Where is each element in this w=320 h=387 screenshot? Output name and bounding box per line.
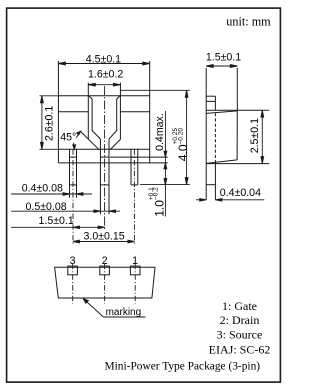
side tab top [206, 95, 215, 97]
bottom view body outline [55, 267, 155, 298]
svg-text:45°: 45° [60, 132, 76, 144]
internal tab edge right segment [120, 111, 149, 113]
svg-text:2: 2 [102, 255, 108, 267]
side hidden tab line [214, 113, 216, 163]
dim 1.6 line [88, 84, 120, 86]
svg-text:0.4±0.08: 0.4±0.08 [22, 183, 63, 195]
tab left side + 1.6 extension [87, 83, 89, 140]
lead 2 (center) front [99, 139, 101, 214]
side lead tip [206, 184, 215, 186]
svg-text:−0.2: −0.2 [152, 187, 159, 200]
centerline center/tab [104, 86, 106, 229]
centerline lead 1 [133, 149, 135, 243]
svg-text:1.6±0.2: 1.6±0.2 [88, 68, 123, 80]
side body top face [206, 109, 269, 111]
dim 0.5 (lead 2 width) line [11, 210, 120, 212]
marking leader diagonal [85, 301, 103, 318]
svg-text:1.5±0.1: 1.5±0.1 [39, 215, 74, 227]
centerline lead 3 [72, 149, 74, 243]
svg-text:1: 1 [132, 255, 138, 267]
dim 0.4max / 1.0 shared line [164, 111, 166, 217]
side body left edge full (ext+tab+body+lead+ext) [205, 68, 207, 200]
45 deg leader arrow down to bottom [73, 143, 76, 148]
side seating extension line [206, 163, 269, 165]
svg-text:0.4±0.04: 0.4±0.04 [220, 187, 261, 199]
side 1.5 right extension [236, 68, 238, 110]
dim 2.6 line [41, 96, 43, 150]
svg-text:4.5±0.1: 4.5±0.1 [86, 53, 121, 65]
front view body right edge + 4.5 extension [149, 61, 151, 163]
inner metal outline right [109, 96, 120, 139]
svg-text:1.0: 1.0 [152, 200, 166, 217]
svg-text:marking: marking [106, 307, 142, 318]
dim 4.5 line [58, 63, 149, 65]
front view body bottom edge [58, 148, 149, 150]
side tab right edge [214, 96, 216, 110]
svg-text:2.6±0.1: 2.6±0.1 [44, 106, 56, 141]
side dim 2.5 line [261, 110, 263, 163]
internal tab edge left segment [58, 111, 88, 113]
dim 0.4 (lead 3 width) line [11, 193, 92, 195]
bottom view lead 2 stub [100, 266, 110, 275]
lead 3 (left) front [69, 149, 71, 198]
tab right side + 1.6 extension [119, 83, 121, 140]
svg-text:4.0: 4.0 [176, 144, 190, 161]
front view bottom step / seating line [58, 162, 167, 164]
front view body top edge [58, 95, 149, 97]
bottom view lead 1 stub [130, 266, 140, 275]
lead 1 (right) front [130, 149, 132, 185]
svg-text:−0.20: −0.20 [177, 128, 184, 145]
lead tip extension to 4.0 dim [140, 184, 190, 186]
svg-text:Mini-Power Type Package (3-pin: Mini-Power Type Package (3-pin) [105, 360, 261, 372]
dim 1.5 (pitch) line [11, 226, 105, 228]
side body top draft slope [206, 111, 237, 114]
marking leader underline [104, 316, 146, 318]
front view lead shoulder stub right [110, 156, 168, 158]
bottom view centerline lead 1 [134, 264, 136, 304]
tab 45 deg taper right [110, 139, 121, 150]
side body right edge [236, 110, 238, 160]
front view body left edge + 4.5 extension [57, 61, 59, 163]
svg-text:2: Drain: 2: Drain [220, 313, 260, 327]
svg-text:3: Source: 3: Source [217, 327, 263, 341]
svg-text:0.4max.: 0.4max. [154, 113, 166, 151]
side dim 1.5 line [206, 65, 237, 67]
bottom view centerline lead 3 [72, 264, 74, 304]
bottom view centerline lead 2 [104, 264, 106, 304]
svg-text:EIAJ: SC-62: EIAJ: SC-62 [209, 342, 271, 356]
svg-text:1.5±0.1: 1.5±0.1 [206, 52, 241, 64]
dim 2.6 extension top [40, 95, 59, 97]
side tab bend line [206, 100, 215, 102]
dim 2.6 extension bottom [40, 148, 59, 150]
dim 3.0 (span) line [73, 241, 134, 243]
side lead right edge [214, 163, 216, 200]
tab top extension to 4.0 dim [120, 89, 189, 91]
side body bottom draft slope [206, 160, 237, 164]
svg-text:3: 3 [70, 255, 76, 267]
side dim 0.4 thickness line [196, 199, 206, 201]
svg-text:0.5±0.08: 0.5±0.08 [26, 201, 67, 213]
bottom view lead 3 stub [68, 266, 78, 275]
svg-text:1: Gate: 1: Gate [222, 299, 257, 313]
svg-text:2.5±0.1: 2.5±0.1 [249, 118, 261, 153]
svg-text:unit: mm: unit: mm [226, 15, 271, 29]
dim 4.0 line [186, 90, 188, 184]
45 deg leader arrow to taper [76, 132, 80, 138]
inner metal outline left [89, 96, 101, 139]
svg-text:3.0±0.15: 3.0±0.15 [84, 230, 125, 242]
tab 45 deg taper left [81, 132, 100, 150]
